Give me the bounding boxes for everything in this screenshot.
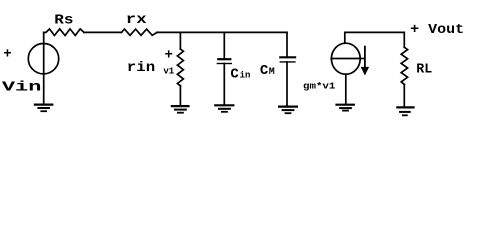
wire CM bottom stub (286, 62, 288, 107)
current source chord (331, 58, 364, 60)
wire RL bottom stub (403, 85, 405, 108)
wire current source bottom stub (345, 74, 347, 104)
ground (under Vin) (34, 105, 54, 112)
ground (under current source) (335, 105, 355, 111)
resistor rx (121, 29, 157, 35)
svg-text:+ Vout: + Vout (410, 22, 464, 38)
svg-text:gm*v1: gm*v1 (303, 82, 336, 92)
wire top node corner down to CM (286, 32, 288, 57)
wire Cin top stub (223, 32, 225, 59)
svg-text:M: M (269, 67, 275, 78)
ground (under Cin) (214, 105, 234, 112)
wire rx to CM corner (top node) (157, 31, 287, 33)
svg-text:in: in (240, 71, 251, 81)
voltage source Vin (28, 44, 58, 74)
wire output top rail (345, 32, 405, 47)
resistor RL (401, 47, 407, 84)
ground (under RL) (396, 107, 414, 115)
resistor Rs (44, 29, 84, 36)
svg-text:+: + (165, 48, 173, 64)
capacitor CM (279, 57, 296, 62)
wire rin top stub (179, 32, 181, 49)
wire Vin vertical through source (43, 32, 45, 104)
ground (under rin) (171, 106, 190, 113)
svg-text:Vin: Vin (2, 80, 42, 96)
svg-text:v1: v1 (163, 66, 174, 76)
capacitor Cin (217, 59, 232, 63)
resistor rin (177, 49, 183, 86)
current source gm*v1 (331, 43, 360, 74)
svg-text:Rs: Rs (54, 13, 73, 29)
svg-text:+: + (3, 47, 11, 63)
svg-text:RL: RL (416, 61, 432, 77)
label CM (260, 63, 275, 79)
svg-text:rx: rx (126, 12, 148, 28)
current direction arrow (361, 47, 369, 76)
svg-text:C: C (230, 67, 239, 83)
wire rin bottom stub (179, 86, 181, 106)
ground (under CM) (278, 107, 298, 114)
wire Cin bottom stub (223, 64, 225, 106)
label Cin (230, 67, 250, 83)
svg-text:C: C (260, 63, 269, 79)
svg-text:rin: rin (127, 60, 155, 76)
wire Rs to rx (84, 31, 121, 33)
